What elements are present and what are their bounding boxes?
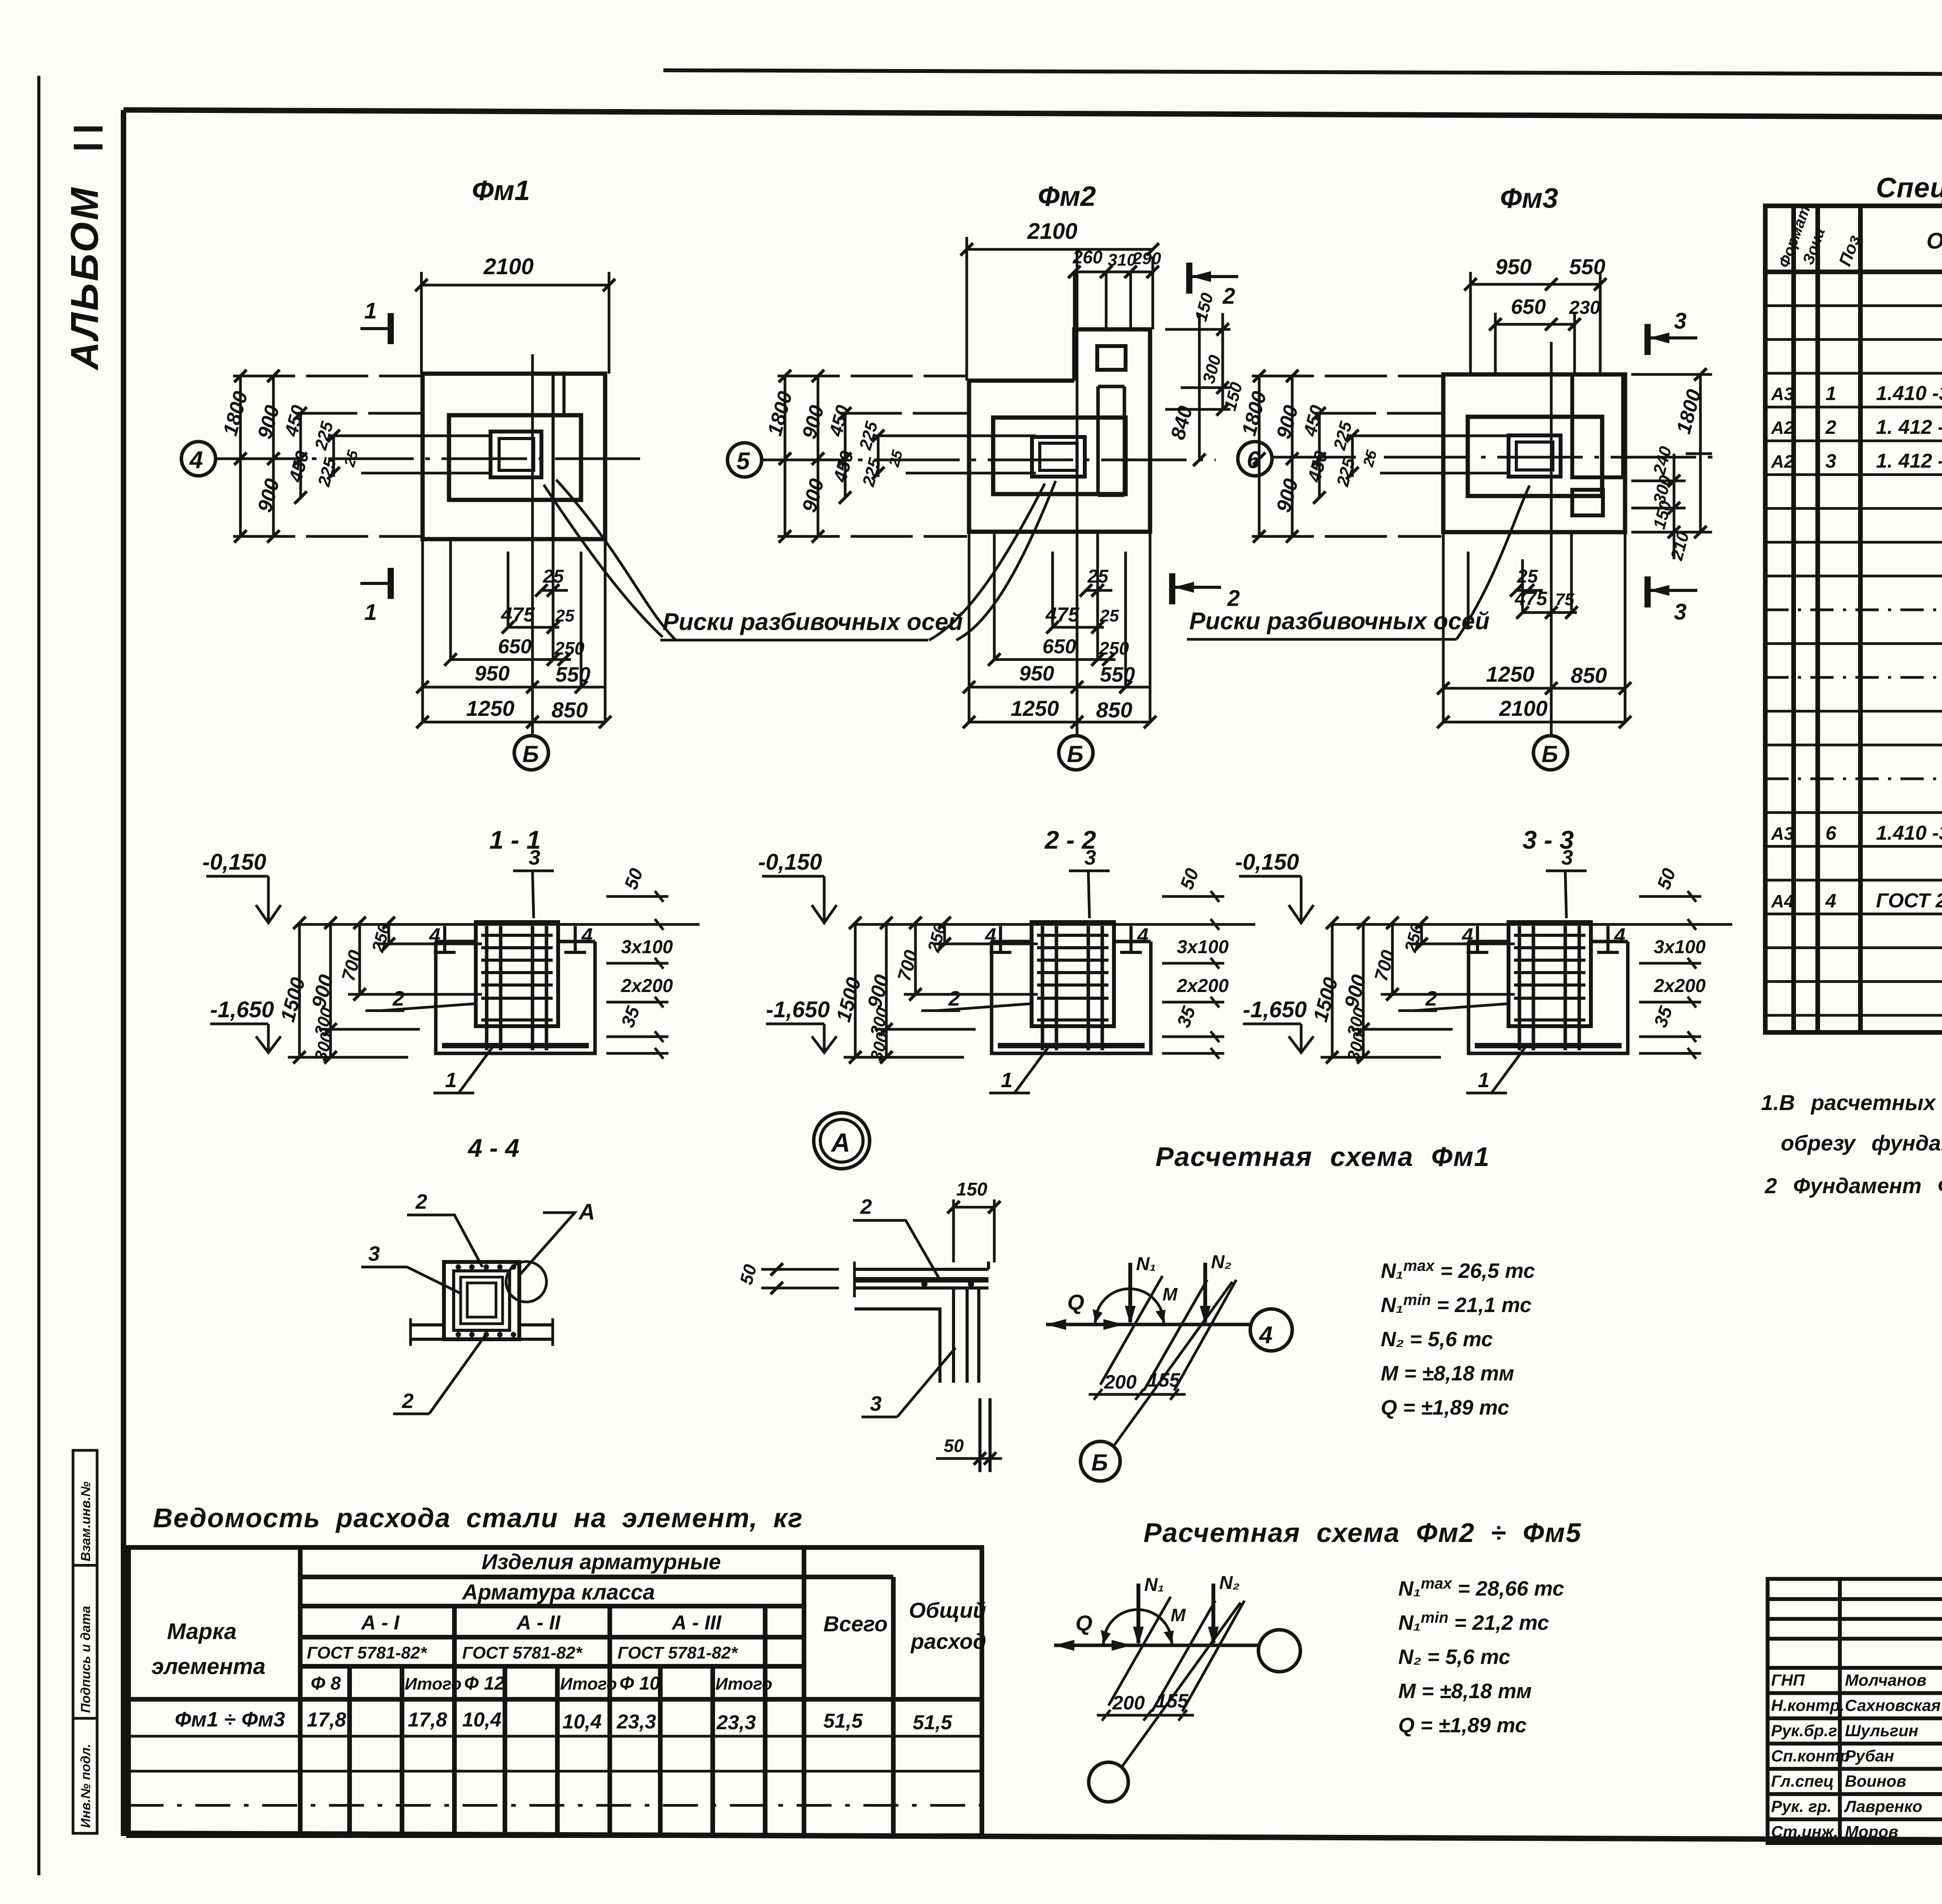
dim 150 top <box>954 1206 994 1209</box>
svg-text:Моров: Моров <box>1845 1822 1898 1841</box>
tower inner verticals <box>1098 386 1124 495</box>
svg-text:25: 25 <box>1087 566 1109 587</box>
svg-text:3: 3 <box>1674 599 1686 625</box>
svg-text:A: A <box>578 1199 595 1225</box>
svg-text:2 Фундамент Фм 14 разработан: 2 Фундамент Фм 14 разработан на листе 7. <box>1765 1173 1942 1198</box>
svg-text:Ф 8: Ф 8 <box>311 1673 341 1694</box>
svg-text:4 - 4: 4 - 4 <box>467 1133 519 1162</box>
svg-text:1.В расчетных схемах даны но: 1.В расчетных схемах даны нормативные на… <box>1761 1090 1942 1115</box>
svg-text:Шульгин: Шульгин <box>1845 1721 1918 1740</box>
svg-text:2: 2 <box>402 1389 414 1413</box>
svg-text:Фм3: Фм3 <box>1500 183 1558 214</box>
section mark 1 top <box>360 327 389 330</box>
svg-text:17,8: 17,8 <box>408 1709 447 1731</box>
svg-text:25: 25 <box>1100 606 1119 625</box>
section mark 3 top <box>1649 336 1697 339</box>
svg-text:A: A <box>830 1128 850 1157</box>
svg-text:4: 4 <box>189 447 203 473</box>
vertical axis <box>531 354 534 736</box>
outer rect <box>1443 374 1625 532</box>
row lines <box>1765 306 1942 1015</box>
force values 1 <box>1381 1257 1535 1419</box>
svg-text:550: 550 <box>555 663 590 686</box>
vertical axis <box>1550 342 1553 736</box>
svg-text:Б: Б <box>1091 1450 1108 1476</box>
svg-text:1: 1 <box>364 600 377 625</box>
svg-text:Рубан: Рубан <box>1845 1747 1894 1765</box>
section mark 1 bottom <box>360 582 389 585</box>
right inner rect <box>1572 374 1623 477</box>
svg-text:950: 950 <box>475 662 510 685</box>
outer square <box>969 381 1150 532</box>
svg-text:Б: Б <box>1542 741 1558 767</box>
leader 3 <box>385 1267 461 1293</box>
svg-text:23,3: 23,3 <box>716 1711 756 1734</box>
svg-text:475: 475 <box>501 604 535 626</box>
svg-text:310: 310 <box>1108 251 1136 270</box>
middle rect <box>993 418 1126 494</box>
left dim stack <box>1252 376 1510 536</box>
svg-text:ГОСТ 24379.1-80: ГОСТ 24379.1-80 <box>1876 889 1942 912</box>
svg-text:обрезу фундамента на отм.: обрезу фундамента на отм. -0,150 . <box>1781 1131 1942 1155</box>
svg-text:Б: Б <box>522 741 539 767</box>
svg-text:1: 1 <box>1825 383 1836 404</box>
svg-text:550: 550 <box>1569 254 1605 279</box>
svg-text:M = ±8,18 тм: M = ±8,18 тм <box>1381 1362 1514 1385</box>
svg-text:3: 3 <box>870 1392 882 1415</box>
svg-text:Рук.бр.г: Рук.бр.г <box>1771 1721 1837 1740</box>
svg-text:3: 3 <box>368 1242 380 1265</box>
column stub <box>1032 437 1085 477</box>
svg-text:Рук. гр.: Рук. гр. <box>1771 1797 1832 1815</box>
svg-text:Инв.№ подл.: Инв.№ подл. <box>78 1744 93 1828</box>
svg-text:650: 650 <box>498 635 532 658</box>
column stub <box>1509 435 1561 477</box>
svg-text:25: 25 <box>555 606 574 625</box>
svg-text:75: 75 <box>1555 590 1574 609</box>
leader 3 <box>897 1348 955 1417</box>
svg-text:расход: расход <box>910 1629 986 1653</box>
svg-text:2: 2 <box>1825 416 1836 438</box>
svg-text:Взам.инв.№: Взам.инв.№ <box>78 1481 93 1561</box>
vertical bars below <box>978 1398 981 1472</box>
section mark 2 top <box>1191 275 1238 278</box>
svg-text:250: 250 <box>554 638 585 658</box>
axis circle 6 <box>1238 442 1272 476</box>
svg-text:Воинов: Воинов <box>1845 1772 1906 1790</box>
section mark 2 bottom <box>1174 586 1221 589</box>
svg-text:Б: Б <box>1067 741 1083 767</box>
svg-text:2100: 2100 <box>483 254 534 279</box>
small hole bottom right <box>1572 490 1603 515</box>
right dim 840 + small <box>1165 313 1230 460</box>
svg-text:Q = ±1,89 тс: Q = ±1,89 тс <box>1398 1714 1527 1737</box>
outer sheet edge left <box>37 76 40 1875</box>
horizontal axis <box>761 459 1216 461</box>
svg-text:Риски разбивочных осей: Риски разбивочных осей <box>1189 608 1490 635</box>
svg-text:Спецификация Фм1 ÷ Фм3 , Фм 14: Спецификация Фм1 ÷ Фм3 , Фм 14 <box>1876 172 1942 204</box>
svg-text:1.410 -3, вып.1: 1.410 -3, вып.1 <box>1876 382 1942 405</box>
svg-text:А - I: А - I <box>360 1612 400 1634</box>
svg-text:475: 475 <box>1045 604 1080 626</box>
svg-text:850: 850 <box>1571 663 1607 687</box>
left dim stack <box>233 376 491 536</box>
svg-text:N₂ = 5,6 тс: N₂ = 5,6 тс <box>1381 1328 1493 1351</box>
svg-text:Итого: Итого <box>405 1674 461 1693</box>
horizontal axis <box>215 458 640 460</box>
svg-text:23,3: 23,3 <box>616 1711 656 1733</box>
svg-text:10,4: 10,4 <box>562 1711 602 1733</box>
svg-text:1. 412 - 1/77, вып.3: 1. 412 - 1/77, вып.3 <box>1876 416 1942 439</box>
svg-text:Сахновская: Сахновская <box>1845 1696 1941 1714</box>
leader A circle <box>520 1213 575 1274</box>
svg-text:ГНП: ГНП <box>1771 1671 1805 1689</box>
vertical axis <box>1076 249 1079 736</box>
svg-text:А - II: А - II <box>516 1612 561 1634</box>
dots on slab <box>921 1281 974 1287</box>
svg-text:850: 850 <box>1096 698 1132 722</box>
svg-text:Сп.контр: Сп.контр <box>1771 1747 1850 1765</box>
svg-text:150: 150 <box>956 1179 987 1200</box>
svg-text:1.410 -3, вып.1: 1.410 -3, вып.1 <box>1876 822 1942 844</box>
svg-text:Ст.инж.: Ст.инж. <box>1771 1822 1838 1841</box>
middle rect <box>1468 417 1602 496</box>
left signatures part <box>1768 1579 1942 1843</box>
svg-text:Риски разбивочных осей: Риски разбивочных осей <box>663 609 963 635</box>
detail 4-4 drawing <box>361 1190 595 1414</box>
svg-text:Ф 12: Ф 12 <box>464 1673 505 1694</box>
dim 2100 top <box>421 284 609 287</box>
svg-text:6: 6 <box>1825 822 1837 844</box>
table grid <box>1765 206 1942 1032</box>
svg-text:1250: 1250 <box>466 696 515 721</box>
force values 2 <box>1398 1575 1564 1737</box>
dim 50 bottom <box>936 1457 1002 1460</box>
svg-text:550: 550 <box>1100 663 1135 686</box>
svg-text:А - III: А - III <box>671 1612 722 1634</box>
svg-text:Итого: Итого <box>715 1674 772 1693</box>
svg-text:Марка: Марка <box>167 1619 237 1644</box>
svg-text:Общий: Общий <box>909 1598 986 1622</box>
svg-text:элемента: элемента <box>151 1654 266 1679</box>
svg-text:475: 475 <box>1514 588 1548 609</box>
svg-text:ГОСТ 5781-82*: ГОСТ 5781-82* <box>462 1643 583 1662</box>
middle rect <box>449 415 581 500</box>
svg-text:1: 1 <box>364 298 377 324</box>
svg-text:950: 950 <box>1495 254 1531 279</box>
svg-text:N₂ = 5,6 тс: N₂ = 5,6 тс <box>1398 1645 1510 1669</box>
svg-text:А3: А3 <box>1771 384 1794 404</box>
svg-text:ГОСТ 5781-82*: ГОСТ 5781-82* <box>307 1643 427 1662</box>
top dims 650 230 <box>1495 323 1575 326</box>
svg-text:ГОСТ 5781-82*: ГОСТ 5781-82* <box>618 1643 738 1662</box>
horizontal axis <box>1270 456 1721 459</box>
dim 2100 top <box>967 248 1153 251</box>
top slab <box>854 1268 988 1271</box>
svg-text:230: 230 <box>1569 298 1600 318</box>
svg-text:10,4: 10,4 <box>462 1709 501 1731</box>
svg-text:25: 25 <box>1517 566 1538 587</box>
dim 50 left <box>761 1268 839 1271</box>
svg-text:850: 850 <box>552 698 588 722</box>
axis circle Б <box>514 736 548 770</box>
svg-text:M = ±8,18 тм: M = ±8,18 тм <box>1398 1679 1532 1703</box>
svg-text:Гл.спец: Гл.спец <box>1771 1772 1834 1790</box>
svg-text:А3: А3 <box>1771 823 1794 844</box>
svg-text:5: 5 <box>736 448 750 475</box>
svg-text:Изделия арматурные: Изделия арматурные <box>482 1549 721 1574</box>
svg-text:2: 2 <box>860 1195 872 1218</box>
svg-text:1. 412 - 1/77, вып.3: 1. 412 - 1/77, вып.3 <box>1876 450 1942 472</box>
svg-text:Молчанов: Молчанов <box>1845 1671 1926 1689</box>
svg-text:Фм1 ÷ Фм3: Фм1 ÷ Фм3 <box>175 1708 285 1731</box>
svg-text:Всего: Всего <box>823 1612 887 1636</box>
svg-text:Подпись и дата: Подпись и дата <box>78 1606 93 1713</box>
side wings <box>411 1323 444 1326</box>
svg-text:А4: А4 <box>1771 891 1794 911</box>
left dim stack <box>778 376 1036 536</box>
tower hole <box>1097 346 1126 370</box>
svg-text:1250: 1250 <box>1486 662 1535 686</box>
svg-text:51,5: 51,5 <box>913 1711 952 1734</box>
svg-text:250: 250 <box>1099 638 1129 658</box>
top dims 950 550 <box>1470 283 1600 286</box>
outer sheet edge top <box>663 70 1942 76</box>
Риски разбивочных осей labels <box>544 480 1530 640</box>
svg-text:Н.контр.: Н.контр. <box>1771 1696 1845 1714</box>
column stub <box>491 432 541 477</box>
below dim chains <box>423 539 605 722</box>
svg-text:АЛЬБОМ: АЛЬБОМ <box>63 186 106 371</box>
leader 2 top <box>428 1215 482 1267</box>
svg-text:Обозначение: Обозначение <box>1926 228 1942 254</box>
inner vertical riska lines <box>552 374 555 539</box>
svg-text:Q = ±1,89 тс: Q = ±1,89 тс <box>1381 1396 1509 1419</box>
svg-text:260: 260 <box>1072 247 1103 267</box>
axis circle Б <box>1059 736 1093 770</box>
svg-text:3: 3 <box>1825 450 1836 472</box>
rebar dots row <box>456 1264 516 1337</box>
svg-text:А2: А2 <box>1771 451 1794 472</box>
axis circle 4 <box>181 442 216 476</box>
section mark 3 bottom <box>1649 589 1697 592</box>
svg-text:Ведомость расхода стали на эле: Ведомость расхода стали на элемент, кг <box>153 1503 803 1533</box>
svg-text:Арматура класса: Арматура класса <box>461 1580 655 1604</box>
svg-text:Расчетная схема Фм2 ÷ Фм5: Расчетная схема Фм2 ÷ Фм5 <box>1143 1518 1582 1548</box>
below dim chains <box>1443 532 1625 722</box>
svg-text:Итого: Итого <box>560 1674 617 1693</box>
svg-text:Лавренко: Лавренко <box>1844 1797 1922 1815</box>
svg-text:4: 4 <box>1258 1322 1272 1349</box>
svg-text:650: 650 <box>1042 635 1076 658</box>
svg-text:А2: А2 <box>1771 418 1794 438</box>
nested squares <box>444 1262 519 1339</box>
svg-text:950: 950 <box>1019 662 1054 685</box>
axis circle 5 <box>727 443 762 477</box>
corner L <box>854 1262 988 1383</box>
svg-text:17,8: 17,8 <box>307 1709 346 1731</box>
svg-text:2: 2 <box>1227 586 1240 611</box>
svg-text:650: 650 <box>1511 295 1546 318</box>
tower extension <box>1074 329 1150 381</box>
svg-text:4: 4 <box>1825 890 1836 912</box>
svg-text:Фм2: Фм2 <box>1038 181 1096 212</box>
svg-text:51,5: 51,5 <box>823 1710 863 1732</box>
svg-text:1250: 1250 <box>1011 696 1059 721</box>
svg-text:2: 2 <box>1222 284 1235 309</box>
svg-text:290: 290 <box>1132 249 1161 268</box>
sub dims 260 310 290 <box>1074 271 1153 273</box>
svg-text:3: 3 <box>1674 308 1686 334</box>
right dims 1800 and small <box>1631 374 1712 559</box>
leader 2 bottom <box>429 1336 485 1414</box>
svg-text:50: 50 <box>944 1436 964 1456</box>
svg-text:25: 25 <box>543 566 564 587</box>
svg-text:Расчетная схема Фм1: Расчетная схема Фм1 <box>1155 1142 1490 1172</box>
outer square <box>423 374 605 539</box>
axis circle Б <box>1533 736 1568 770</box>
svg-text:2100: 2100 <box>1499 696 1548 721</box>
below dim chains <box>969 532 1150 722</box>
svg-text:2100: 2100 <box>1027 219 1077 244</box>
left rotated strip <box>73 1450 97 1833</box>
svg-text:Ф 10: Ф 10 <box>619 1673 660 1694</box>
svg-text:Фм1: Фм1 <box>472 175 530 206</box>
svg-text:2: 2 <box>415 1190 427 1213</box>
leader 2 <box>876 1220 940 1280</box>
